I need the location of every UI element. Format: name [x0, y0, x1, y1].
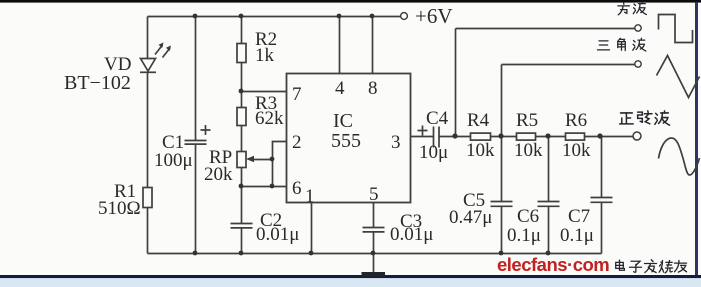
wire: pin 3 to C4	[411, 136, 434, 138]
node: bottom rail / C6	[546, 251, 551, 256]
logo chinese: dianzifashaoyou	[616, 260, 687, 273]
capacitor C2 0.01u plates	[231, 224, 253, 228]
svg-text:8: 8	[368, 78, 378, 99]
svg-text:6: 6	[292, 178, 302, 199]
wire: square-wave output line	[456, 28, 636, 30]
wire: R2 branch from top rail	[241, 17, 243, 44]
wire: pin 7 connection	[242, 91, 287, 93]
top black bar	[0, 0, 701, 3]
svg-text:10k: 10k	[562, 140, 591, 161]
label fangbo (square wave)	[618, 2, 647, 15]
svg-text:4: 4	[335, 78, 345, 99]
svg-text:0.47μ: 0.47μ	[449, 207, 492, 228]
wire: C6 to bottom rail	[548, 206, 550, 253]
svg-text:10k: 10k	[466, 140, 495, 161]
wire: pin 8 to top rail	[372, 17, 374, 74]
terminal: square wave output	[635, 25, 641, 31]
svg-text:100μ: 100μ	[154, 150, 193, 171]
capacitor C7 0.1u plates	[591, 198, 613, 203]
svg-text:1k: 1k	[255, 45, 275, 66]
svg-text:62k: 62k	[255, 108, 284, 129]
svg-text:IC: IC	[333, 110, 353, 132]
resistor R4 10k body	[471, 133, 491, 140]
node: pin2 vertical / pin6 line	[270, 184, 275, 189]
node: C4 / square tap	[452, 133, 457, 138]
wire: R1 to bottom rail	[147, 208, 149, 254]
wire: C2 to bottom rail	[241, 228, 243, 254]
wire: diode to R1	[147, 72, 149, 187]
bottom navy bar	[0, 275, 701, 278]
resistor R6 10k body	[566, 133, 585, 140]
svg-text:R4: R4	[467, 110, 490, 131]
svg-text:C7: C7	[568, 206, 590, 227]
C4 plus sign	[418, 126, 428, 136]
wire: C3 to bottom rail	[373, 232, 375, 254]
sine wave icon	[659, 138, 700, 175]
wire: C1 branch from top rail	[195, 17, 197, 141]
svg-text:2: 2	[292, 132, 302, 153]
right navy border	[695, 2, 698, 278]
node: R5-R6 / C6	[545, 133, 550, 138]
wire: triangle-wave output line	[502, 64, 636, 66]
svg-text:1: 1	[305, 186, 315, 207]
wire: pin 2 connection	[273, 142, 287, 187]
wire: bottom ground rail	[148, 253, 602, 255]
svg-text:0.01μ: 0.01μ	[256, 224, 299, 245]
svg-text:555: 555	[331, 130, 361, 152]
svg-text:BT−102: BT−102	[64, 72, 131, 94]
resistor R3 62k body	[237, 108, 246, 126]
wire: C6 branch vertical	[548, 137, 550, 202]
ground bar	[362, 272, 386, 277]
resistor R1 510ohm body	[143, 188, 152, 208]
svg-text:+6V: +6V	[415, 4, 453, 28]
svg-text:20k: 20k	[204, 164, 233, 185]
svg-text:5: 5	[369, 184, 379, 205]
potentiometer RP 20k body	[237, 152, 246, 168]
svg-text:7: 7	[292, 84, 302, 105]
wire: R4 to R5	[491, 136, 517, 138]
wire: C5 to bottom rail	[501, 206, 503, 253]
terminal: +6V	[401, 13, 408, 20]
bottom light blue strip	[0, 278, 701, 287]
diode VD BT-102	[140, 45, 170, 72]
node: R2-R3 / pin7	[239, 89, 244, 94]
wire: R5 to R6	[536, 136, 566, 138]
wire: R6 to sine terminal	[585, 136, 634, 138]
wire: pin 4 to top rail	[339, 17, 341, 74]
node: bottom rail / pin1	[309, 251, 314, 256]
terminal: triangle wave output	[635, 61, 641, 67]
node: bottom rail / C1	[193, 251, 198, 256]
wire: triangle-wave tap vertical	[501, 65, 503, 137]
wire: C5 branch vertical	[501, 137, 503, 202]
capacitor C3 0.01u plates	[363, 228, 385, 232]
wire: pin 1 to bottom rail	[311, 203, 313, 254]
node: top rail / pin8	[370, 14, 375, 19]
RP wiper arrow line	[252, 159, 273, 161]
wire: square-wave tap vertical	[455, 29, 457, 137]
wire: C7 to bottom rail	[601, 202, 603, 253]
svg-text:C4: C4	[426, 108, 449, 129]
terminal: sine wave output	[633, 132, 641, 140]
svg-text:0.01μ: 0.01μ	[390, 224, 433, 245]
node: R4-R5 / triangle tap / C5	[498, 133, 503, 138]
wire: pin 5 to C3	[373, 203, 375, 228]
svg-text:C6: C6	[517, 206, 539, 227]
svg-text:R6: R6	[565, 110, 587, 131]
resistor R5 10k body	[517, 133, 536, 140]
RP wiper arrowhead	[246, 156, 254, 162]
svg-text:10k: 10k	[514, 140, 543, 161]
wire: left vertical (top rail to diode)	[147, 17, 149, 59]
wire: C4 to R4	[439, 136, 471, 138]
svg-text:3: 3	[391, 132, 401, 153]
capacitor C5 0.47u plates	[491, 202, 513, 207]
node: top rail / pin4	[337, 14, 342, 19]
svg-text:10μ: 10μ	[419, 142, 448, 163]
wire: R2 to R3	[241, 63, 243, 108]
wire: pin 6 connection	[242, 186, 287, 188]
node: RP bottom / pin6	[239, 184, 244, 189]
node: bottom rail / C2	[239, 251, 244, 256]
C1 plus sign	[201, 125, 211, 135]
node: top rail / C1	[193, 14, 198, 19]
svg-text:0.1μ: 0.1μ	[507, 225, 541, 246]
IC 555 box	[287, 74, 411, 203]
svg-text:510Ω: 510Ω	[98, 198, 141, 219]
resistor R2 1k body	[237, 44, 246, 63]
svg-text:R5: R5	[516, 110, 538, 131]
wire: RP bottom to C2	[241, 168, 243, 224]
node: bottom rail / ground	[371, 251, 376, 256]
node: top rail / R2	[239, 14, 244, 19]
capacitor C6 0.1u plates	[538, 202, 560, 207]
wire: top +6V rail	[148, 16, 401, 18]
node: wiper / pin2 line	[270, 157, 275, 162]
label sanjiaobo (triangle wave)	[598, 38, 646, 51]
wire: R3 to RP	[241, 126, 243, 152]
wire: C1 to bottom rail	[195, 144, 197, 253]
svg-text:elecfans·com: elecfans·com	[497, 254, 609, 275]
wire: C7 branch vertical	[601, 137, 603, 198]
LED arrowhead 1	[159, 43, 164, 49]
label zhengxianbo (sine wave)	[620, 111, 670, 125]
capacitor C4 10u plates	[434, 127, 440, 148]
wire: ground stub	[373, 254, 375, 273]
svg-text:0.1μ: 0.1μ	[560, 225, 594, 246]
node: bottom rail / C5	[499, 251, 504, 256]
node: R6 / C7 / sine out	[597, 133, 602, 138]
capacitor C1 100u plates	[185, 141, 207, 145]
square wave icon	[659, 15, 693, 43]
triangle wave icon	[657, 56, 700, 98]
LED arrowhead 2	[166, 46, 171, 52]
